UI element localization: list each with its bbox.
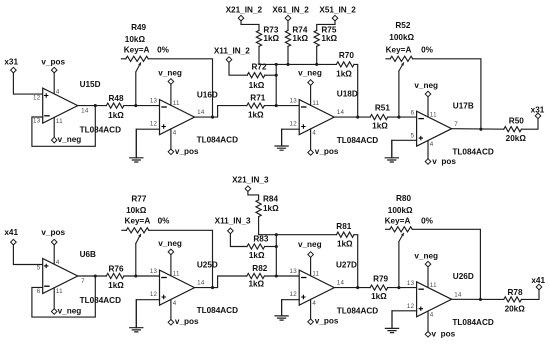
svg-text:12: 12	[150, 291, 158, 298]
svg-text:R84: R84	[263, 195, 278, 204]
wire bus vertical node bottom	[275, 235, 277, 276]
svg-text:v_pos: v_pos	[41, 228, 65, 237]
svg-text:v_pos: v_pos	[315, 317, 339, 326]
junction U6B output feedback	[94, 274, 97, 277]
svg-text:7: 7	[81, 278, 85, 285]
svg-text:Key=A: Key=A	[125, 216, 151, 225]
terminal X51_IN_2	[332, 15, 338, 21]
svg-text:X11_IN_2: X11_IN_2	[214, 47, 250, 56]
wire R75 to bus	[316, 46, 318, 64]
terminal v_pos U15D	[51, 67, 57, 73]
svg-text:x41: x41	[531, 276, 545, 285]
svg-text:11: 11	[56, 288, 63, 295]
svg-text:11: 11	[430, 282, 437, 289]
svg-text:1kΩ: 1kΩ	[263, 34, 279, 43]
wire U16D plus to ground	[136, 129, 159, 158]
wire U16D output	[195, 106, 247, 118]
svg-text:v pos: v pos	[432, 329, 456, 338]
svg-text:v_neg: v_neg	[298, 68, 322, 77]
svg-text:v_neg: v_neg	[58, 306, 82, 315]
junction bus bottom drop	[275, 233, 278, 236]
terminal v_neg U18D	[308, 80, 314, 86]
junction R51 R52 wiper	[397, 116, 400, 119]
svg-text:11: 11	[312, 270, 319, 277]
terminal v_neg U16D	[168, 79, 174, 85]
svg-text:1kΩ: 1kΩ	[248, 279, 264, 288]
svg-text:12: 12	[290, 291, 298, 298]
wire R83 to node	[265, 246, 277, 248]
svg-text:0%: 0%	[157, 46, 170, 55]
wire R48 to U16D minus	[124, 105, 160, 107]
potentiometer R49 wiper arrow	[136, 62, 141, 72]
wire R49 wiper drop	[135, 72, 137, 106]
svg-text:13: 13	[33, 118, 41, 125]
svg-text:6: 6	[411, 109, 415, 116]
resistor R70	[336, 62, 354, 67]
wire R71 to U18D minus	[264, 105, 299, 107]
ground U16D	[135, 129, 137, 158]
svg-text:12: 12	[290, 121, 298, 128]
junction bus R75	[315, 63, 318, 66]
terminal x31 input	[11, 67, 17, 73]
wire U26D pin4 to v pos	[427, 311, 429, 331]
resistor R74	[285, 30, 290, 46]
svg-text:4: 4	[312, 129, 316, 136]
svg-text:R50: R50	[509, 117, 524, 126]
svg-text:4: 4	[430, 312, 434, 319]
resistor R79	[370, 285, 388, 290]
wire v_neg to U26D pin11	[427, 267, 429, 288]
wire X61_IN_2 to R74	[287, 21, 289, 31]
svg-text:4: 4	[173, 129, 177, 136]
terminal v_neg U27D	[308, 252, 314, 258]
svg-text:1kΩ: 1kΩ	[108, 111, 124, 120]
junction node R83	[275, 245, 278, 248]
resistor R81	[336, 232, 354, 237]
wire R49 to U16D output	[148, 59, 212, 117]
wire R78 to x41 output	[521, 290, 539, 300]
svg-text:1kΩ: 1kΩ	[336, 69, 352, 78]
svg-text:11: 11	[56, 118, 63, 125]
wire U6B pin11 to v_neg	[53, 288, 55, 309]
svg-text:x41: x41	[4, 228, 18, 237]
terminal v_neg U25D	[168, 249, 174, 255]
svg-text:11: 11	[173, 270, 180, 277]
wire U25D plus to ground	[136, 300, 159, 328]
svg-text:R81: R81	[336, 222, 351, 231]
svg-text:13: 13	[150, 268, 158, 275]
potentiometer R77 wiper arrow	[136, 234, 141, 244]
potentiometer R49	[126, 56, 149, 61]
svg-text:U25D: U25D	[197, 261, 218, 270]
wire v_neg to U25D pin11	[170, 255, 172, 276]
wire U6B output to R76	[78, 275, 107, 277]
op-amp U17B plus input symbol	[419, 136, 423, 140]
terminal X21_IN_3	[245, 186, 251, 192]
svg-text:U16D: U16D	[197, 90, 218, 99]
wire U26D plus to ground	[392, 311, 417, 328]
svg-text:14: 14	[197, 280, 205, 287]
svg-text:v_pos: v_pos	[175, 147, 199, 156]
svg-text:10kΩ: 10kΩ	[126, 206, 147, 215]
op-amp U17B minus input symbol	[418, 118, 424, 120]
svg-text:R79: R79	[373, 274, 388, 283]
wire R70 to U18D output	[354, 64, 358, 117]
svg-text:X21_IN_2: X21_IN_2	[226, 6, 263, 15]
svg-text:20kΩ: 20kΩ	[506, 134, 527, 143]
wire X51_IN_2 to R75	[317, 21, 335, 31]
wire R74 to bus	[287, 46, 289, 64]
wire U18D output to R51	[334, 116, 370, 118]
svg-text:Key=A: Key=A	[385, 217, 411, 226]
wire x31 input to U15D +	[13, 73, 42, 94]
wire bus vertical node	[275, 64, 277, 105]
wire R50 to x31 output	[521, 119, 538, 130]
potentiometer R77 left stub	[122, 229, 126, 231]
svg-text:1kΩ: 1kΩ	[292, 34, 308, 43]
svg-text:14: 14	[454, 291, 462, 298]
svg-text:13: 13	[150, 98, 158, 105]
junction bus drop	[275, 63, 278, 66]
wire U18D pin4 to v_pos	[310, 129, 312, 150]
wire R80 to U26D output	[412, 229, 480, 299]
svg-text:R71: R71	[250, 94, 265, 103]
terminal v_neg U6B	[51, 309, 57, 315]
svg-text:11: 11	[312, 100, 319, 107]
op-amp U26D triangle	[417, 282, 452, 317]
junction R77 wiper node	[134, 274, 137, 277]
svg-text:R77: R77	[131, 194, 146, 203]
svg-text:1kΩ: 1kΩ	[249, 81, 265, 90]
junction U16D output R49	[211, 116, 214, 119]
op-amp U25D minus input symbol	[161, 277, 167, 279]
svg-text:14: 14	[81, 107, 89, 114]
terminal v_pos U25D	[168, 320, 174, 326]
terminal X61_IN_2	[285, 15, 291, 21]
resistor R50	[504, 127, 522, 132]
svg-text:U15D: U15D	[80, 80, 101, 89]
wire U27D plus to ground	[282, 300, 300, 316]
junction node B R82	[275, 274, 278, 277]
ground U17B	[391, 140, 393, 158]
wire R52 wiper drop	[398, 71, 400, 117]
wire U18D plus to ground	[282, 129, 300, 146]
svg-text:X51_IN_2: X51_IN_2	[319, 6, 356, 15]
op-amp U27D triangle	[299, 270, 334, 305]
svg-text:TL084ACD: TL084ACD	[337, 136, 378, 145]
svg-text:v pos: v pos	[432, 157, 456, 166]
resistor R72	[247, 73, 265, 78]
wire U15D feedback loop	[32, 106, 95, 147]
terminal v_pos U27D	[308, 319, 314, 325]
wire U27D output to R79	[334, 287, 370, 289]
wire U16D pin4 to v_pos	[170, 129, 172, 149]
resistor R82	[247, 273, 265, 278]
resistor R75	[314, 30, 319, 46]
terminal v_pos U6B	[51, 239, 57, 245]
resistor R78	[504, 297, 522, 302]
op-amp U18D minus input symbol	[301, 106, 307, 108]
junction node R72	[275, 74, 278, 77]
svg-text:14: 14	[337, 109, 345, 116]
svg-text:12: 12	[407, 303, 415, 310]
svg-text:4: 4	[430, 141, 434, 148]
svg-text:Key=A: Key=A	[124, 46, 150, 55]
svg-text:v_pos: v_pos	[41, 58, 65, 67]
terminal v_pos U16D	[168, 149, 174, 155]
junction R79 R80 wiper	[397, 286, 400, 289]
terminal X21_IN_2	[238, 15, 244, 21]
wire v_neg to U17B pin11	[427, 97, 429, 117]
op-amp U15D triangle	[43, 88, 78, 123]
svg-text:R76: R76	[108, 264, 123, 273]
terminal v_neg U15D	[51, 137, 57, 143]
svg-text:0%: 0%	[421, 217, 434, 226]
svg-text:6: 6	[37, 288, 41, 295]
terminal x41 output	[536, 284, 542, 290]
svg-text:11: 11	[430, 112, 437, 119]
terminal v_pos U18D	[308, 150, 314, 156]
svg-text:R52: R52	[395, 21, 410, 30]
potentiometer R49 left stub	[121, 58, 125, 60]
potentiometer R52 left stub	[386, 58, 390, 60]
svg-text:0%: 0%	[421, 46, 434, 55]
svg-text:4: 4	[312, 300, 316, 307]
ground U18D bars	[274, 146, 288, 150]
ground U17B bars	[385, 158, 399, 162]
svg-text:R49: R49	[131, 23, 146, 32]
svg-text:20kΩ: 20kΩ	[505, 305, 526, 314]
op-amp U27D minus input symbol	[301, 277, 307, 279]
wire X21_IN_3 to R84	[248, 192, 259, 200]
svg-text:X61_IN_2: X61_IN_2	[272, 6, 309, 15]
svg-text:7: 7	[454, 121, 458, 128]
svg-text:11: 11	[173, 100, 180, 107]
svg-text:1kΩ: 1kΩ	[248, 110, 264, 119]
op-amp U6B minus input symbol	[44, 285, 50, 287]
op-amp U6B plus input symbol	[44, 264, 48, 268]
junction U26D output R80	[479, 298, 482, 301]
terminal v_neg U17B	[425, 91, 431, 97]
wire R72 to node	[265, 74, 276, 76]
svg-text:TL084ACD: TL084ACD	[197, 306, 238, 315]
potentiometer R52 wiper arrow	[399, 62, 404, 71]
svg-text:12: 12	[150, 121, 158, 128]
terminal v pos U26D	[425, 332, 431, 338]
junction U15D output feedback	[94, 104, 97, 107]
wire R81 to U27D output	[354, 235, 358, 288]
ground U26D	[391, 311, 393, 329]
ground U25D bars	[129, 328, 143, 332]
op-amp U16D plus input symbol	[162, 124, 166, 128]
terminal v pos U17B	[425, 159, 431, 165]
wire U25D pin4 to v_pos	[170, 299, 172, 319]
svg-text:TL084ACD: TL084ACD	[452, 148, 493, 157]
wire U15D pin11 to v_neg	[53, 117, 55, 137]
svg-text:4: 4	[173, 300, 177, 307]
wire R77 to U25D output	[149, 230, 213, 287]
svg-text:R82: R82	[252, 264, 267, 273]
terminal x31 output	[535, 113, 541, 119]
wire x41 input to U6B +	[13, 245, 42, 265]
svg-text:TL084ACD: TL084ACD	[197, 135, 238, 144]
resistor R48	[106, 103, 124, 108]
ground U18D	[281, 129, 283, 146]
junction R49 wiper node	[134, 104, 137, 107]
potentiometer R77	[126, 228, 149, 233]
svg-text:1kΩ: 1kΩ	[249, 251, 265, 260]
svg-text:U26D: U26D	[453, 272, 474, 281]
junction U18D output R70	[356, 116, 359, 119]
op-amp U18D plus input symbol	[301, 124, 305, 128]
op-amp U26D plus input symbol	[419, 307, 423, 311]
wire U6B feedback loop	[32, 276, 95, 317]
svg-text:R80: R80	[396, 194, 411, 203]
junction bus R74	[286, 63, 289, 66]
wire R73 to bus	[258, 46, 260, 64]
resistor R84	[256, 200, 261, 217]
svg-text:X11_IN_3: X11_IN_3	[215, 217, 251, 226]
wire v_neg to U27D pin11	[310, 257, 312, 276]
wire U27D pin4 to v_pos	[310, 299, 312, 319]
wire U17B output to R50	[452, 128, 504, 131]
resistor R76	[106, 273, 124, 278]
svg-text:R48: R48	[108, 94, 123, 103]
resistor R71	[247, 103, 265, 108]
svg-text:R70: R70	[339, 51, 354, 60]
potentiometer R80	[390, 227, 413, 232]
potentiometer R52	[390, 56, 413, 61]
resistor R73	[256, 30, 261, 46]
svg-text:TL084ACD: TL084ACD	[80, 126, 121, 135]
svg-text:v_pos: v_pos	[315, 147, 339, 156]
wire R52 to U17B output	[413, 59, 481, 129]
resistor R51	[370, 115, 388, 120]
svg-text:1kΩ: 1kΩ	[372, 122, 388, 131]
svg-text:4: 4	[56, 88, 60, 95]
wire U25D output	[195, 276, 247, 288]
op-amp U18D triangle	[299, 100, 334, 135]
svg-text:R51: R51	[375, 104, 390, 113]
svg-text:x31: x31	[4, 58, 18, 67]
op-amp U6B triangle	[43, 259, 78, 294]
op-amp U25D triangle	[160, 270, 195, 305]
svg-text:12: 12	[33, 94, 41, 101]
svg-text:R83: R83	[253, 234, 268, 243]
svg-text:X21_IN_3: X21_IN_3	[232, 176, 269, 185]
svg-text:100kΩ: 100kΩ	[388, 206, 413, 215]
ground U27D	[281, 300, 283, 316]
svg-text:1kΩ: 1kΩ	[321, 34, 337, 43]
op-amp U16D triangle	[160, 100, 195, 135]
wire U17B pin4 to v pos	[427, 141, 429, 159]
wire R51 to U17B minus	[388, 116, 417, 118]
svg-text:1kΩ: 1kΩ	[337, 240, 353, 249]
svg-text:13: 13	[407, 280, 415, 287]
ground U16D bars	[129, 158, 143, 162]
wire summing bus bottom	[259, 234, 337, 236]
terminal X11_IN_2	[226, 57, 232, 63]
op-amp U17B triangle	[417, 111, 452, 146]
terminal x41 input	[11, 239, 17, 245]
op-amp U15D minus input symbol	[44, 115, 50, 117]
svg-text:0%: 0%	[158, 217, 171, 226]
wire X11_IN_2 to R72	[229, 62, 247, 75]
op-amp U27D plus input symbol	[301, 295, 305, 299]
wire R84 to bus	[258, 217, 260, 235]
svg-text:TL084ACD: TL084ACD	[452, 318, 493, 327]
potentiometer R80 left stub	[386, 228, 390, 230]
op-amp U25D plus input symbol	[162, 295, 166, 299]
svg-text:U6B: U6B	[80, 250, 96, 259]
wire R80 wiper drop	[398, 242, 400, 288]
wire U26D output to R78	[452, 298, 504, 300]
svg-text:13: 13	[290, 268, 298, 275]
wire R79 to U26D minus	[388, 287, 417, 289]
svg-text:v_neg: v_neg	[414, 81, 438, 90]
svg-text:v_neg: v_neg	[158, 239, 182, 248]
wire U15D output to R48	[78, 105, 107, 107]
resistor R83	[247, 244, 265, 249]
svg-text:4: 4	[56, 259, 60, 266]
ground U26D bars	[385, 328, 399, 332]
ground U25D	[135, 300, 137, 328]
svg-text:TL084ACD: TL084ACD	[337, 306, 378, 315]
svg-text:v_pos: v_pos	[175, 317, 199, 326]
wire v_neg to U16D pin11	[170, 84, 172, 105]
svg-text:1kΩ: 1kΩ	[108, 281, 124, 290]
svg-text:1kΩ: 1kΩ	[263, 204, 279, 213]
op-amp U26D minus input symbol	[418, 288, 424, 290]
terminal v_neg U26D	[425, 261, 431, 267]
svg-text:U27D: U27D	[336, 260, 357, 269]
wire R76 to U25D minus	[124, 275, 160, 277]
svg-text:1kΩ: 1kΩ	[371, 292, 387, 301]
svg-text:v_neg: v_neg	[58, 135, 82, 144]
svg-text:13: 13	[290, 98, 298, 105]
svg-text:TL084ACD: TL084ACD	[80, 296, 121, 305]
svg-text:U17B: U17B	[453, 102, 474, 111]
svg-text:v_neg: v_neg	[414, 251, 438, 260]
svg-text:14: 14	[197, 109, 205, 116]
wire X21_IN_2 to R73	[241, 21, 259, 31]
wire U17B plus to ground	[392, 140, 417, 157]
svg-text:Key=A: Key=A	[386, 46, 412, 55]
svg-text:14: 14	[337, 280, 345, 287]
ground U27D bars	[274, 316, 288, 320]
wire v_pos to U6B pin4	[53, 245, 55, 264]
potentiometer R80 wiper arrow	[399, 233, 404, 242]
wire R82 to U27D minus	[264, 275, 299, 277]
svg-text:5: 5	[37, 265, 41, 272]
svg-text:100kΩ: 100kΩ	[389, 33, 414, 42]
wire X11_IN_3 to R83	[230, 234, 247, 247]
svg-text:U18D: U18D	[337, 90, 358, 99]
wire v_pos to U15D pin4	[53, 73, 55, 94]
wire summing bus	[259, 63, 336, 65]
svg-text:5: 5	[411, 132, 415, 139]
op-amp U16D minus input symbol	[161, 106, 167, 108]
svg-text:v_neg: v_neg	[298, 240, 322, 249]
wire v_neg to U18D pin11	[310, 85, 312, 105]
wire R77 wiper drop	[135, 244, 137, 277]
junction U25D output R77	[211, 286, 214, 289]
junction node A R71	[275, 104, 278, 107]
terminal X11_IN_3	[228, 228, 234, 234]
svg-text:R78: R78	[507, 288, 522, 297]
junction U17B output R52	[479, 128, 482, 131]
op-amp U15D plus input symbol	[44, 93, 48, 97]
